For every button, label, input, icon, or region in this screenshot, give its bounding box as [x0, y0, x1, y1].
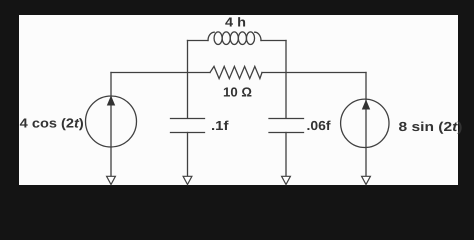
wire: capacitor C2 to ground — [285, 133, 287, 177]
value label .06f (capacitor C2) — [307, 118, 332, 133]
current source I1 circle — [86, 96, 137, 147]
svg-text:.06f: .06f — [307, 118, 332, 133]
wire: top horizontal, left segment to resistor — [111, 72, 210, 74]
wire: top horizontal, right segment from resistor — [262, 72, 366, 74]
wire: inductor left lead — [188, 40, 209, 42]
capacitor C1 plates — [171, 119, 205, 133]
value label .1f (capacitor C1) — [211, 118, 229, 133]
source label 8 sin (2t) for I2 — [399, 119, 463, 134]
capacitor C2 plates — [269, 119, 304, 133]
ground symbol under I1 — [107, 176, 116, 184]
resistor R1 zigzag — [210, 66, 262, 78]
svg-text:.1f: .1f — [211, 118, 229, 133]
svg-text:4 h: 4 h — [225, 15, 246, 30]
inductor L1 coil — [208, 32, 261, 45]
svg-text:4 cos (2t): 4 cos (2t) — [20, 116, 84, 131]
wire: capacitor C1 to ground — [187, 133, 189, 177]
source label 4 cos (2t) for I1 — [20, 116, 84, 131]
wire: inductor right lead — [261, 40, 286, 42]
ground symbol under C1 — [183, 176, 192, 184]
svg-text:10 Ω: 10 Ω — [223, 85, 252, 100]
value label 10 ohm (resistor R1) — [223, 85, 252, 100]
value label 4 h (inductor L1) — [225, 15, 246, 30]
svg-text:8 sin (2t): 8 sin (2t) — [399, 119, 463, 134]
current source I2 arrow (points up) — [362, 100, 370, 110]
ground symbol under C2 — [282, 176, 291, 184]
current source I2 circle — [341, 99, 389, 147]
node A vertical wire (left junction, inductor to capacitor C1) — [187, 41, 189, 119]
ground symbol under I2 — [362, 176, 371, 184]
wire: left source vertical from top wire through I1 to ground — [110, 73, 112, 177]
node B vertical wire (right junction, inductor to capacitor C2) — [285, 41, 287, 119]
current source I1 arrow (points up) — [107, 96, 115, 106]
wire: right source vertical from top wire through I2 to ground — [365, 73, 367, 177]
